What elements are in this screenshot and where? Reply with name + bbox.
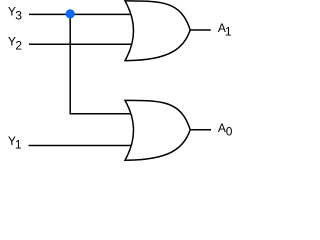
wire output A1	[190, 29, 211, 31]
wire Y3 input	[29, 13, 131, 15]
wire branch from Y3 node down to gate U2	[70, 14, 131, 113]
svg-text:1: 1	[225, 25, 232, 39]
wire output A0	[190, 129, 211, 131]
svg-text:1: 1	[15, 138, 22, 152]
svg-text:0: 0	[226, 124, 233, 138]
svg-text:2: 2	[15, 39, 22, 53]
or-gate U1 (top, output A1)	[125, 1, 190, 61]
wire Y2 input	[29, 43, 131, 45]
or-gate U2 (bottom, output A0)	[125, 100, 190, 160]
wire Y1 input	[29, 145, 132, 147]
svg-text:3: 3	[15, 9, 22, 23]
node junction dot on Y3	[66, 9, 75, 18]
